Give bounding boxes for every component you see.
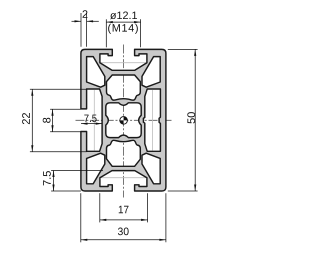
profile body (outer contour with T-slots and internal cavities) bbox=[81, 49, 166, 191]
centerline horizontal bbox=[76, 119, 172, 121]
tangent line bottom slot bbox=[101, 177, 147, 179]
dimension: 17 (bottom) bbox=[100, 193, 148, 222]
dimension: 50 (right) bbox=[168, 49, 198, 191]
tangent line left slot bbox=[93, 90, 95, 151]
dimension: 7.5 (slot depth, middle) bbox=[81, 123, 102, 125]
dimension: 8 (left inner) bbox=[50, 109, 81, 132]
dimension: 2 (top left wall thickness) bbox=[72, 13, 99, 47]
dimension: ø12.1 (M14) bbox=[106, 19, 140, 47]
centerline vertical bbox=[123, 45, 125, 198]
tangent line top slot bbox=[101, 62, 147, 64]
dimension: 30 (bottom) bbox=[81, 193, 166, 242]
dimension: 22 (left) bbox=[30, 89, 87, 151]
center of gravity symbol bbox=[120, 117, 128, 125]
dimension: 7.5 (bottom left) bbox=[51, 171, 103, 192]
tangent line right slot bbox=[152, 90, 154, 151]
